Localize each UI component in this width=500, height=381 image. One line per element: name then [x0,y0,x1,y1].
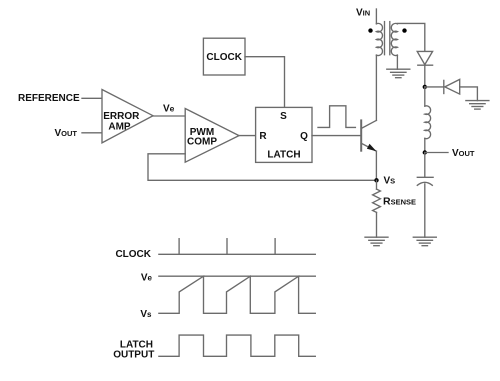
wire VOUT stub [425,152,448,154]
svg-text:S: S [280,111,287,122]
inductor L1 [425,106,431,139]
svg-text:CLOCK: CLOCK [115,249,151,260]
wire latch Q to transistor base [312,135,361,137]
transistor Q1 NPN [361,120,376,151]
node Vs junction dot [374,178,378,182]
svg-text:Vs: Vs [140,309,152,320]
svg-text:REFERENCE: REFERENCE [18,93,80,104]
wire C1 to ground [424,184,426,237]
wire node VOUT to capacitor C1 [424,153,426,178]
wire VIN to transformer primary [375,9,377,24]
wire node Ve: error amp to PWM comp [153,115,185,117]
ground (transformer secondary) [387,69,410,78]
wire D1 cathode to node A [424,65,426,87]
wire D2 anode to ground [460,87,478,101]
svg-text:COMP: COMP [187,136,217,147]
transformer T1 secondary winding [391,23,397,55]
wire RSENSE to ground [376,212,378,237]
phasing dot primary [368,28,372,32]
waveform CLOCK trace [159,239,315,255]
svg-text:R: R [259,131,267,142]
svg-text:Ve: Ve [141,273,153,284]
ground (D2) [466,101,489,110]
svg-text:VIN: VIN [356,8,370,19]
wire node A to diode D2 [425,86,444,88]
wire collector to transformer primary [375,55,377,120]
svg-text:ERROR: ERROR [103,111,140,122]
wire CLOCK to latch S input [245,57,285,108]
svg-text:Ve: Ve [163,104,175,115]
latch U3 box [256,107,312,162]
transformer T1 primary winding [376,23,382,55]
svg-text:CLOCK: CLOCK [206,52,242,63]
wire inductor to node VOUT [424,138,426,152]
wire emitter to node Vs [375,151,377,180]
waveform LATCH OUTPUT trace [159,335,315,356]
svg-text:VOUT: VOUT [452,148,475,159]
svg-text:AMP: AMP [108,122,131,133]
waveform Vs trace [159,276,315,313]
op-amp U1 ERROR AMP [102,90,153,143]
wire PWM comp output to latch R [239,135,256,137]
transformer T1 core [384,22,386,55]
diode D2 catch [444,79,460,94]
oscillator CLOCK box [203,38,245,75]
svg-text:RSENSE: RSENSE [383,196,416,208]
node VOUT junction dot [423,150,427,154]
wire feedback from node Vs to PWM comp inverting input [148,154,377,181]
node A junction dot [423,85,427,89]
wire REFERENCE to error amp [82,97,102,99]
resistor RSENSE [373,189,381,212]
diode D1 rectifier [417,51,432,65]
wire secondary top to diode D1 [397,23,424,51]
wire secondary bottom to ground [396,55,398,69]
wire node Vs to resistor RSENSE [376,180,378,189]
phasing dot secondary [402,28,406,32]
capacitor C1 [417,177,433,185]
pulse symbol on Q output wire [318,106,355,128]
waveform Ve trace [159,275,315,277]
svg-text:VOUT: VOUT [55,128,78,139]
wire VOUT to error amp [82,132,102,134]
wire node A to inductor L1 [424,87,426,106]
svg-text:OUTPUT: OUTPUT [113,349,154,360]
ground (RSENSE) [365,237,388,246]
comparator U2 PWM COMP [185,109,239,163]
ground (C1) [413,237,436,246]
svg-text:Q: Q [300,131,308,142]
svg-text:VS: VS [384,176,396,187]
svg-text:LATCH: LATCH [267,150,300,161]
